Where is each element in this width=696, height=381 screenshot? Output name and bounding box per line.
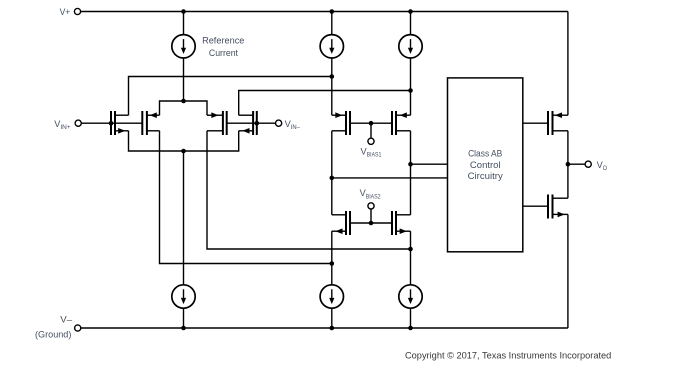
junction top rail / I1 [181,9,186,14]
wire VBIAS2 gates [350,222,392,224]
transistor M9 (output PMOS) [548,111,568,135]
wire mirror node to I4 [183,151,185,285]
transistor M4 (input PMOS, VIN- outer) [239,111,257,135]
wire M10 source to V- rail [567,214,569,328]
VIN- terminal [276,120,282,126]
wire M8 source down to node D [410,231,412,249]
transistor M6 (cascode PMOS right) [392,111,411,135]
wire VBIAS1 gates [350,122,392,124]
wire node C to I5 [331,264,333,285]
svg-text:Current: Current [209,48,239,58]
wire M1/M4 sources to tail current [129,131,239,151]
junction node F [408,162,413,167]
VBIAS2 terminal [368,203,374,209]
wire I2 to node A [331,58,333,77]
label copyright [405,350,611,360]
junction node B [408,88,413,93]
wire VBIAS2 stub [370,209,372,223]
wire M1 drain to node A [129,77,332,116]
current source I1 (reference current) [172,35,195,58]
svg-text:Control: Control [470,160,501,170]
wire I6 to V- rail [410,308,412,328]
wire output node to M10 drain [567,164,569,198]
wire M9 source to V+ rail [567,12,569,116]
transistor M1 (input PMOS, VIN+ outer) [111,111,129,135]
junction M1 gate [109,121,114,126]
wire M3 drain down to node D [207,131,411,249]
label VIN+ [54,119,71,131]
junction node C [330,261,335,266]
svg-text:Reference: Reference [202,35,244,45]
svg-text:VIN–: VIN– [285,119,301,131]
wire V- bottom rail [81,327,568,329]
transistor M10 (output NMOS) [548,195,568,219]
transistor M7 (cascode NMOS left) [332,211,350,235]
wire V+ to I3 [410,12,412,35]
svg-text:V+: V+ [60,7,71,17]
junction VBIAS1 [369,121,374,126]
wire VIN+ to M1/M2 gates [81,122,142,124]
junction M4 gate [254,121,259,126]
wire I3 to node B [410,58,412,91]
wire VBIAS1 stub [370,123,372,138]
current source I2 [320,35,343,58]
label Reference Current [202,35,244,58]
wire M2 drain down to node C [160,131,332,264]
VBIAS1 terminal [368,138,374,144]
junction bottom rail / I4 [181,326,186,331]
transistor M5 (cascode PMOS left) [332,111,350,135]
wire node B to M6 source [410,91,412,116]
label VBIAS2 [360,188,381,200]
transistor M8 (cascode NMOS right) [392,211,411,235]
svg-text:VO: VO [597,160,607,172]
svg-text:VIN+: VIN+ [54,119,71,131]
wire V+ to I2 [331,12,333,35]
svg-text:Circuitry: Circuitry [468,171,504,181]
junction VBIAS2 [369,221,374,226]
wire M9 drain to output node [567,131,569,164]
wire VIN- to M3/M4 gates [227,122,276,124]
current source I5 [320,285,343,308]
label VBIAS1 [361,146,382,158]
current source I6 [399,285,422,308]
wire I4 to V- rail [183,308,185,328]
label (Ground) [35,330,71,340]
wire M5 drain down to node E [331,131,333,178]
label VIN- [285,119,301,131]
wire box to M9 gate [523,122,548,124]
svg-text:Copyright © 2017, Texas Instru: Copyright © 2017, Texas Instruments Inco… [405,350,611,360]
svg-text:VBIAS2: VBIAS2 [360,188,381,200]
svg-text:V–: V– [60,315,73,325]
wire I5 to V- rail [331,308,333,328]
V+ terminal [74,8,80,14]
wire node E to M7 drain [331,178,333,215]
wire M4 drain to node B [239,91,411,116]
junction node D [408,247,413,252]
VIN+ terminal [75,120,81,126]
class AB control circuitry block U1 [448,78,523,252]
wire M6 drain down to node F [410,131,412,164]
svg-text:Class AB: Class AB [468,149,502,159]
wire M2/M3 tail [160,101,208,115]
wire output node to VO terminal [568,163,585,165]
wire V+ to I1 [183,12,185,35]
junction bottom rail / I6 [408,326,413,331]
label V+ [60,7,71,17]
wire box to M10 gate [523,205,548,207]
junction top rail / I2 [330,9,335,14]
junction node A [330,74,335,79]
VO terminal [585,161,591,167]
wire node E to class AB box [332,177,448,179]
wire I1 to diff-pair tail [183,58,185,101]
wire M7 source down to node C [331,231,333,263]
wire node F to M8 drain [410,164,412,215]
V- terminal [75,325,81,331]
junction tail node [181,99,186,104]
wire node F to class AB box [411,163,448,165]
junction bottom rail / I5 [330,326,335,331]
junction mirror node [181,149,186,154]
wire node D to I6 [410,249,412,285]
junction output node [566,162,571,167]
transistor M2 (input PMOS, VIN+ inner) [142,111,159,135]
wire V+ top rail [81,11,568,13]
junction node E [330,176,335,181]
junction top rail / I3 [408,9,413,14]
current source I4 [172,285,195,308]
svg-text:(Ground): (Ground) [35,330,71,340]
svg-text:VBIAS1: VBIAS1 [361,146,382,158]
transistor M3 (input PMOS, VIN- inner) [207,111,227,135]
wire node A to M5 source [331,77,333,116]
current source I3 [399,35,422,58]
label VO [597,160,607,172]
label V- [60,315,73,325]
